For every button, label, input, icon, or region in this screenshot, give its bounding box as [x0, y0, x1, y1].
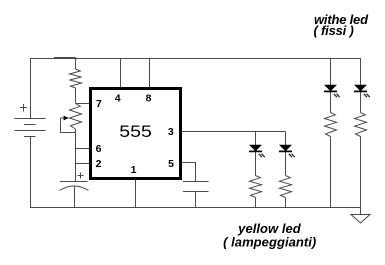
wire white branch 2 upper [360, 59, 362, 86]
wire white branch 1 lower [330, 137, 332, 208]
wire pin 3 to yellow leds [181, 131, 286, 133]
svg-text:5: 5 [168, 158, 174, 170]
wire top rail doubled segment [54, 57, 76, 59]
led D3 white [324, 85, 340, 98]
wire rail to R1 [75, 58, 77, 70]
potentiometer wiper arrowhead [64, 116, 69, 121]
svg-text:( lampeggianti): ( lampeggianti) [223, 235, 316, 250]
capacitor C1 plus sign [78, 173, 84, 179]
wire top rail [30, 58, 361, 60]
wire pin 2 stub [76, 163, 91, 165]
wire pin 8 stub [149, 59, 151, 91]
wire white branch 1 mid [330, 92, 332, 113]
led D2 yellow [279, 145, 295, 158]
wire R1 to pin7 node [75, 88, 77, 104]
capacitor C1 curved plate [60, 186, 89, 191]
resistor R3 [280, 176, 292, 198]
resistor R5 [355, 113, 367, 137]
wire yellow branch 2 upper [285, 132, 287, 146]
wire white branch 2 mid [360, 92, 362, 113]
svg-text:3: 3 [168, 126, 174, 138]
wire yellow branch 2 mid [285, 152, 287, 176]
wire pin 1 to bottom rail [135, 179, 137, 208]
resistor R4 [325, 113, 337, 137]
wire pot to C1 [75, 129, 77, 182]
svg-text:555: 555 [119, 122, 152, 141]
led D4 white [354, 85, 370, 98]
wire yellow branch 2 lower [285, 198, 287, 208]
svg-text:( fissi ): ( fissi ) [314, 23, 354, 38]
capacitor C1 top plate [60, 181, 88, 183]
wire pin 4 stub [120, 59, 122, 91]
wire C1 to bottom rail [74, 186, 76, 208]
svg-text:8: 8 [146, 93, 152, 105]
wire yellow branch 1 lower [255, 198, 257, 208]
IC U1 555 box [91, 89, 181, 179]
svg-text:1: 1 [131, 164, 137, 176]
wire yellow branch 1 upper [255, 132, 257, 146]
wire pin 6 stub [76, 148, 91, 150]
wire white branch 2 lower [360, 137, 362, 215]
capacitor C2 plates [183, 182, 209, 192]
wire C2 to bottom rail [195, 192, 197, 208]
potentiometer wiper tail [61, 117, 65, 119]
wire pin 5 stub to C2 [181, 163, 196, 182]
battery plus sign [20, 104, 27, 112]
svg-text:7: 7 [96, 98, 102, 110]
wire yellow branch 1 mid [255, 152, 257, 176]
battery B1 plates [15, 119, 46, 137]
wire left from rail to battery [30, 59, 32, 119]
resistor R2 [250, 176, 262, 198]
wire pin 7 stub [76, 103, 91, 105]
wire white branch 1 upper [330, 59, 332, 86]
led D1 yellow [249, 145, 265, 158]
resistor R1 [70, 69, 82, 88]
ground symbol [351, 215, 370, 224]
svg-text:2: 2 [96, 158, 102, 170]
wire bottom rail [30, 207, 361, 209]
potentiometer P1 zigzag [70, 104, 82, 130]
svg-text:6: 6 [96, 143, 102, 155]
wire battery to bottom rail [30, 137, 32, 208]
svg-text:4: 4 [115, 93, 121, 105]
potentiometer wiper L-wire [61, 118, 76, 133]
